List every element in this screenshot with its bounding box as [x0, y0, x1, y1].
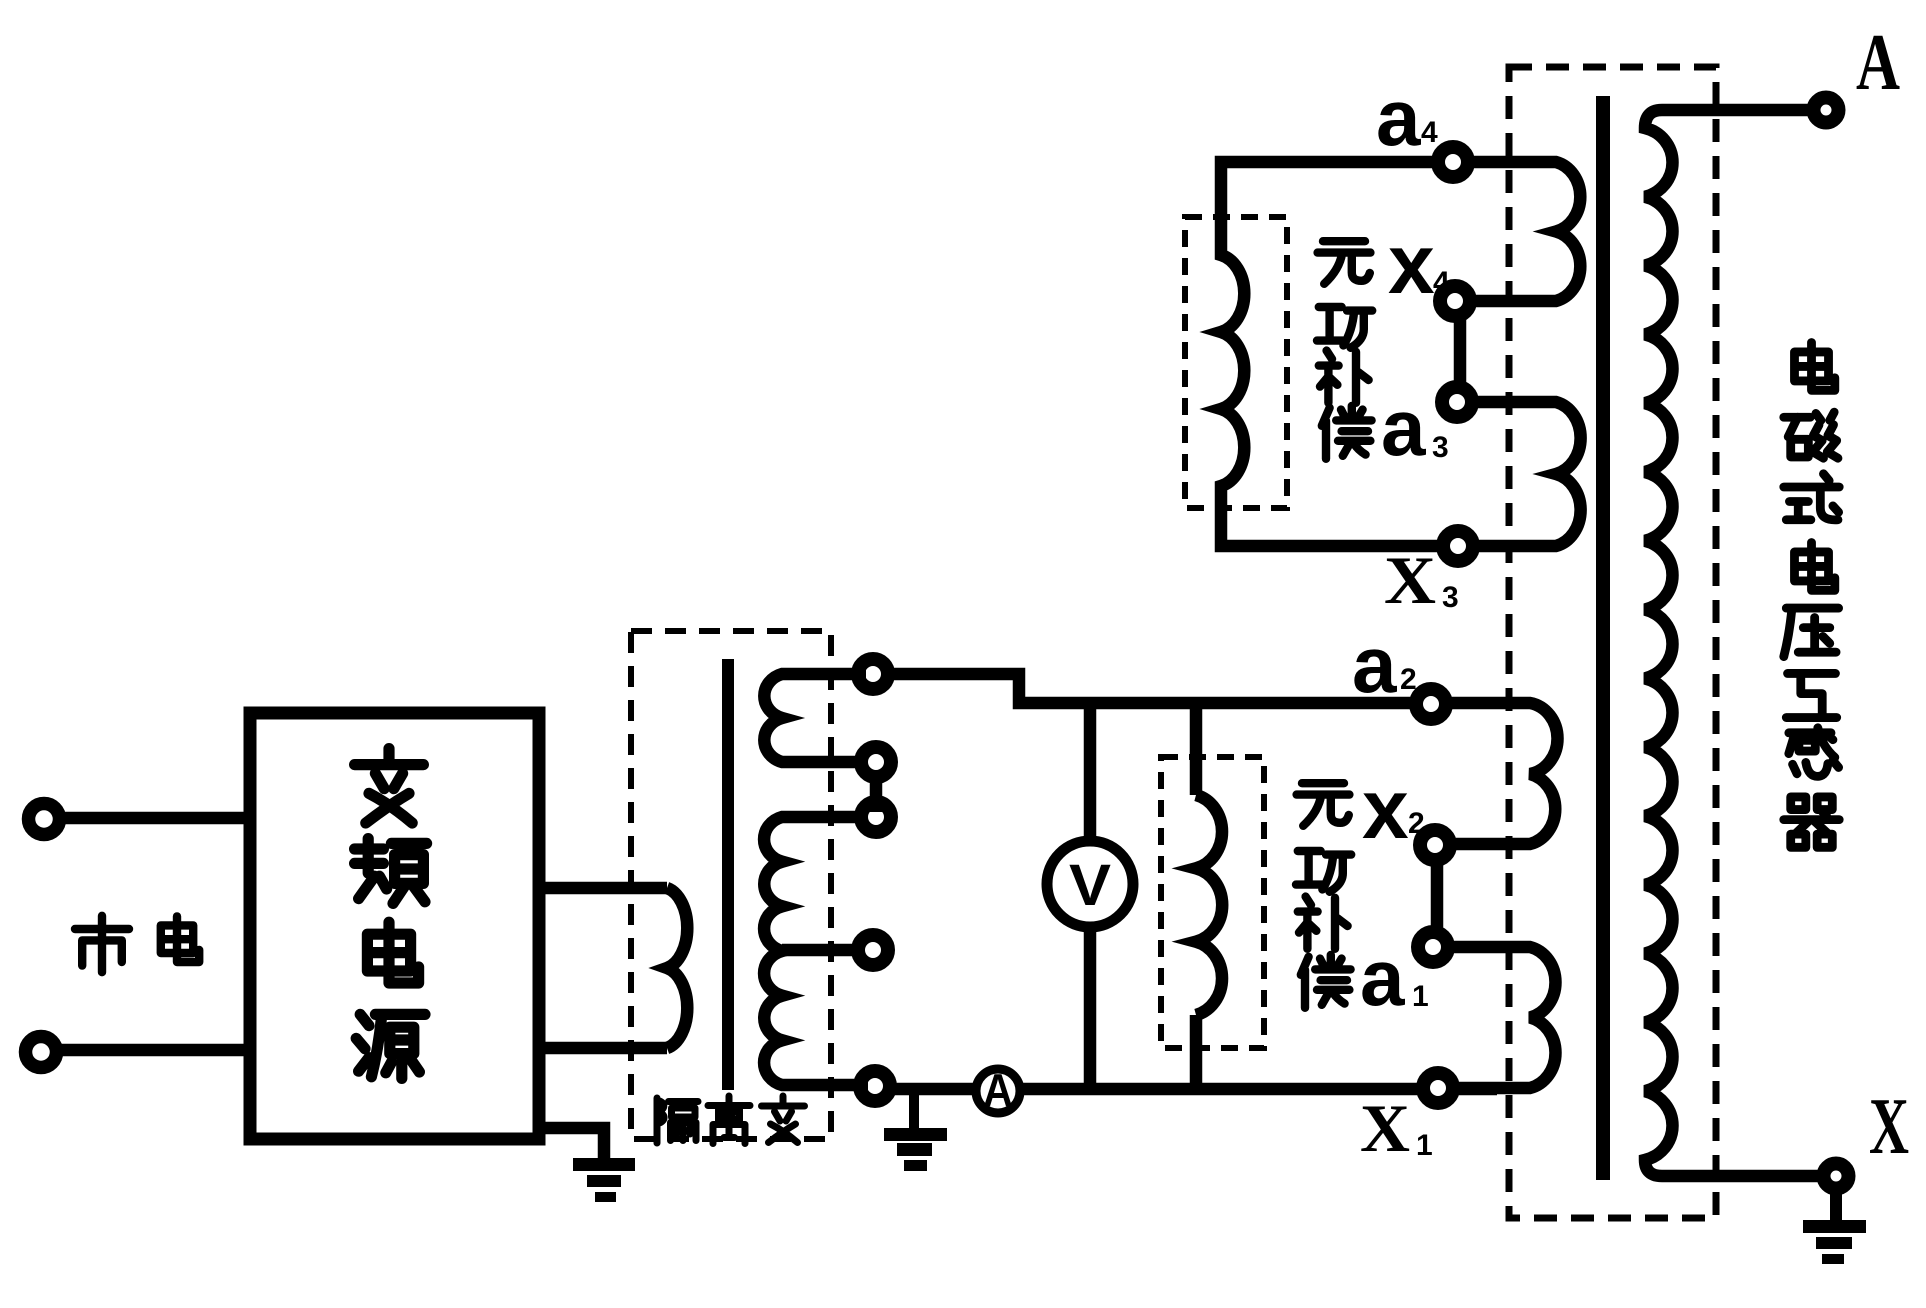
wire link x2-a1	[1431, 857, 1444, 935]
tap node t5	[860, 1071, 890, 1101]
transformer T1 core	[722, 659, 734, 1090]
dashed box upper 无功补偿	[1185, 217, 1287, 508]
wire bottom bus (t5 to x1)	[891, 1083, 975, 1096]
label 电磁式电压互感器 char 电	[1794, 543, 1834, 591]
svg-text:4: 4	[1421, 116, 1438, 149]
terminal A	[1814, 98, 1839, 123]
dashed box VT 电磁式电压互感器	[1509, 67, 1716, 1218]
svg-text:A: A	[983, 1064, 1013, 1116]
svg-text:X: X	[1360, 1090, 1410, 1166]
label 电磁式电压互感器 char 压	[1784, 608, 1839, 657]
terminal x1	[1423, 1073, 1453, 1103]
svg-text:x: x	[1362, 762, 1409, 856]
label 变频电源 char 电	[367, 922, 418, 983]
tap node t2	[861, 747, 891, 777]
dashed box lower 无功补偿	[1161, 757, 1264, 1048]
svg-text:a: a	[1376, 73, 1421, 162]
svg-text:2: 2	[1408, 807, 1425, 840]
svg-text:a: a	[1381, 383, 1426, 472]
VT core	[1596, 96, 1610, 1180]
VT winding a3-x3	[1474, 402, 1581, 546]
label 变频电源 char 变	[355, 749, 424, 823]
svg-text:X: X	[1384, 542, 1436, 618]
svg-text:A: A	[1856, 19, 1900, 107]
wire box output bottom	[539, 1042, 667, 1055]
VT primary (HV) winding	[1645, 110, 1822, 1176]
wire x1 to VT	[1455, 1083, 1497, 1096]
svg-text:1: 1	[1416, 1129, 1433, 1162]
svg-text:1: 1	[1412, 980, 1429, 1013]
svg-text:2: 2	[1400, 663, 1417, 696]
svg-text:3: 3	[1432, 431, 1449, 464]
wire bus after ammeter	[1020, 1083, 1420, 1096]
block U1 变频电源 (variable-frequency power supply)	[250, 713, 539, 1139]
label 变频电源 char 频	[355, 839, 427, 904]
ground G3	[1830, 1190, 1842, 1222]
svg-text:a: a	[1352, 620, 1397, 709]
svg-text:a: a	[1360, 933, 1405, 1022]
voltmeter V1	[1047, 841, 1133, 927]
label 市电 char 电	[161, 916, 199, 962]
label upper 无功补偿 char 偿	[1322, 406, 1372, 459]
label lower 无功补偿 char 补	[1298, 897, 1348, 949]
label 隔离变 char 离	[708, 1096, 750, 1144]
label 电磁式电压互感器 char 互	[1786, 673, 1836, 717]
ground G1	[573, 1158, 635, 1202]
wire upper loop (a4 lead, left side, x3 lead)	[1221, 162, 1440, 546]
label 市电 char 市	[75, 916, 129, 972]
wire L1 to box	[59, 812, 250, 825]
terminal a4	[1438, 147, 1468, 177]
ammeter A1	[976, 1069, 1020, 1113]
label 电磁式电压互感器 char 感	[1789, 728, 1839, 777]
terminal x4	[1440, 286, 1470, 316]
label upper 无功补偿 char 补	[1319, 351, 1369, 403]
label lower 无功补偿 char 无	[1297, 783, 1350, 826]
svg-text:x: x	[1388, 217, 1435, 311]
T1 secondary winding upper section	[764, 674, 866, 762]
VT winding a4-x4	[1470, 162, 1580, 301]
isolation transformer T1 dashed box 隔离变	[631, 631, 831, 1139]
svg-text:3: 3	[1442, 581, 1459, 614]
label upper 无功补偿 char 功	[1317, 307, 1372, 348]
terminal a2	[1416, 689, 1446, 719]
terminal X	[1824, 1164, 1849, 1189]
svg-text:V: V	[1069, 853, 1111, 918]
label 电磁式电压互感器 char 式	[1784, 474, 1839, 520]
VT winding a1-x1	[1450, 947, 1555, 1088]
label upper 无功补偿 char 无	[1318, 241, 1371, 284]
svg-text:X: X	[1869, 1083, 1909, 1171]
terminal a3	[1442, 387, 1472, 417]
label lower 无功补偿 char 偿	[1301, 955, 1351, 1008]
tap node t4	[858, 935, 888, 965]
label 变频电源 char 源	[356, 1014, 425, 1078]
terminal L1 (mains input top)	[29, 804, 60, 835]
label 电磁式电压互感器 char 磁	[1784, 412, 1838, 458]
svg-text:4: 4	[1433, 266, 1450, 299]
wire box to ground G1	[541, 1128, 604, 1158]
label 电磁式电压互感器 char 电	[1794, 343, 1834, 391]
wire L2 to box	[56, 1044, 250, 1057]
VT winding a2-x2	[1448, 703, 1558, 844]
terminal a1	[1418, 932, 1448, 962]
label 隔离变 char 隔	[657, 1098, 698, 1143]
ground G2	[909, 1094, 919, 1128]
T1 secondary winding lower section	[764, 817, 868, 1085]
wire link x4-a3	[1454, 313, 1467, 390]
wire link t2-t3	[870, 770, 883, 812]
wire V branch top	[1084, 708, 1097, 843]
terminal x2	[1420, 830, 1450, 860]
wire top bus (t1 to a2)	[889, 674, 1413, 703]
tap node t3	[861, 802, 891, 832]
T1 primary winding	[667, 888, 687, 1048]
tap node t1	[858, 659, 888, 689]
reactor L-comp1 winding (lower 无功补偿)	[1196, 795, 1222, 1015]
terminal x3	[1443, 531, 1473, 561]
label lower 无功补偿 char 功	[1296, 851, 1351, 892]
wire compensation branch bottom	[1190, 1015, 1203, 1089]
label 电磁式电压互感器 char 器	[1784, 797, 1839, 847]
terminal L2 (mains input bottom)	[26, 1037, 57, 1068]
wire tap t4	[782, 944, 860, 957]
label 隔离变 char 变	[762, 1096, 805, 1143]
wire box output top	[539, 882, 667, 895]
wire compensation branch top	[1190, 708, 1203, 795]
wire V branch bottom	[1084, 925, 1097, 1089]
